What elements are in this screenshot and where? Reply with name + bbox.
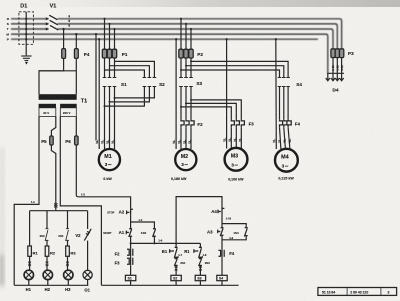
node dots on distribution rail	[130, 242, 178, 244]
pushbutton A2 (STOP, NC)	[127, 208, 133, 215]
wire A3 to F4	[221, 235, 223, 250]
bus L4 (N)	[11, 34, 328, 73]
contactor S1 contact ticks	[103, 78, 117, 87]
motor M2	[175, 149, 196, 170]
wire+terminal marks above lamp H1	[29, 256, 31, 270]
ground	[21, 56, 31, 61]
wire: L4 tap down to fuse P4b	[75, 34, 77, 49]
bus terminal labels at left edge	[6, 17, 9, 41]
wire 2S2 to coil S3	[199, 265, 201, 275]
taps on buses for P1	[103, 18, 115, 30]
overload F3 (3 poles)	[231, 119, 244, 127]
wire: 1S4 bottom back to A3 branch, net 1-9	[222, 236, 246, 240]
pin labels under P3 (rotated)	[331, 65, 344, 71]
terminal x-marks on P5 wire	[54, 203, 57, 207]
wire+terminal marks above lamp H3	[67, 256, 69, 270]
resistor R1	[28, 246, 32, 256]
wire: feed riser to A4 circuit	[176, 197, 222, 244]
wires P3 outputs to terminal strip	[333, 58, 342, 74]
fuse P3a	[331, 49, 335, 58]
lamp circuit top rail	[30, 210, 88, 212]
overload F2 (3 poles)	[181, 119, 194, 127]
wire: 220V right into fuse P6	[75, 117, 77, 137]
holding contact 1S5	[153, 229, 156, 237]
M2 terminal marks	[173, 140, 191, 144]
resistor R2	[45, 246, 49, 256]
wires P2 outputs through S3 to F2 overload	[181, 58, 191, 119]
wire: A1 bottom through merge to F2 contact	[130, 236, 132, 248]
wire 2S1 to coil S2	[175, 265, 177, 275]
connector D1 dashed box	[19, 12, 34, 45]
lamp branch H3 wire	[67, 211, 69, 246]
holding contact 1S4	[244, 228, 247, 237]
fuse P1a	[102, 49, 106, 58]
contact 2S4	[66, 229, 69, 241]
auxiliary contact R1	[194, 243, 202, 258]
M1 terminal marks	[96, 140, 114, 144]
wire: control distribution rail y243.4	[131, 242, 201, 244]
wire: M1 PE drop	[98, 39, 100, 149]
fuse P3b	[335, 49, 339, 58]
lamp circuit bottom rail	[14, 284, 88, 286]
motor M1	[99, 149, 120, 170]
switch V1 blades	[49, 15, 58, 30]
wire: M4 PE drop	[275, 39, 278, 149]
wire: 24V hot into fuse P5	[51, 117, 55, 137]
wire: M2 PE drop	[175, 39, 177, 149]
contactor coil S3	[195, 275, 205, 280]
pushbutton A1 (START, NO)	[126, 229, 132, 237]
taps on buses for P2	[180, 18, 192, 30]
limit contact 2S2	[199, 256, 203, 266]
D4 outgoing arrows	[326, 73, 344, 81]
title block	[318, 288, 397, 296]
M4 terminal marks	[273, 139, 291, 143]
wires buses to fuses P2	[181, 19, 191, 49]
wire: M3 PE drop	[226, 39, 228, 148]
contactor S3 contact ticks	[179, 78, 193, 87]
overload contact F4	[218, 250, 224, 257]
bus L5 (PE)	[11, 38, 318, 40]
wire: A3 parallel branch top, net 1-10	[222, 224, 246, 228]
M3 terminal marks	[223, 138, 241, 142]
fuse P1c	[112, 49, 116, 58]
wire coil S1 to bottom rail	[130, 281, 132, 286]
wire A2 to A1	[130, 215, 132, 228]
auxiliary contact B1	[170, 243, 178, 258]
switch V1 linkage (dashed)	[68, 15, 70, 29]
resistor R3	[66, 246, 70, 256]
fuse P2c	[189, 49, 193, 58]
lamp H1	[24, 270, 33, 279]
overload contact F3	[127, 256, 133, 265]
bus L3 (T phase)	[11, 29, 333, 49]
node dots on D1 vertical	[25, 18, 27, 41]
bus L1 (R phase)	[11, 19, 342, 49]
wire: 24V return (x39 down, left, down to lamp bottom rail)	[14, 117, 39, 286]
fuse P5	[50, 136, 54, 145]
wires P1 outputs to contactor S1 and cross links to S2	[105, 58, 155, 149]
node: T1 primary tap on L4	[75, 33, 77, 35]
switch V1 pole contacts (arrow tips)	[46, 17, 49, 30]
lamp branch H2 wire	[46, 211, 48, 246]
transformer T1 secondary 24V winding bar	[39, 104, 56, 108]
contact 2S3	[45, 229, 48, 241]
transformer T1 primary feed wires	[39, 58, 76, 94]
fuse P4b	[74, 49, 78, 59]
motor M3	[225, 148, 248, 171]
fuse P2a	[179, 49, 183, 58]
overload contact F2	[127, 248, 133, 256]
pushbutton A4 (NC)	[218, 208, 224, 215]
lamp branch O1 wire	[87, 211, 89, 271]
contactor coil S2	[171, 275, 181, 280]
contactor coil S1	[125, 275, 135, 280]
fuse P6	[75, 136, 79, 145]
cross links P2 to contactor S4	[181, 61, 288, 77]
bus L2 (S phase)	[11, 24, 337, 49]
wire: D1 common vertical	[25, 12, 27, 56]
wire: L3 tap down to fuse P4a	[63, 29, 65, 49]
transformer T1 secondary 24V frame	[39, 108, 56, 117]
control bottom rail	[101, 284, 238, 286]
links S3 outputs to M3 column	[181, 100, 241, 119]
wire: P6 output, net 1-3, feed of control circuit	[76, 145, 130, 208]
wire lamp H1 to bottom rail	[28, 280, 30, 286]
lamp H2	[43, 270, 52, 279]
lamp H3	[64, 270, 73, 279]
node dots S2 to S1 merge	[104, 97, 116, 107]
wire A4 to A3	[221, 214, 223, 227]
transformer T1 secondary 220V frame	[60, 108, 76, 117]
pushbutton A3 (NO)	[218, 228, 224, 236]
wire: A1 parallel branch top, net 1-4	[131, 222, 155, 229]
fuse P3c	[340, 49, 344, 58]
wire: 220V left output to control return rail	[60, 117, 101, 286]
contactor S4 contact ticks	[278, 78, 290, 87]
wire F4 to coil S4	[221, 257, 223, 276]
wires F2 to motor M2	[181, 127, 191, 149]
wires F4 to motor M4	[280, 127, 290, 149]
transformer T1 secondary 220V winding bar	[60, 104, 77, 108]
transformer T1 primary winding bar	[39, 94, 77, 100]
node: T1 primary tap on L3	[62, 28, 64, 30]
D4 terminal strip line	[327, 72, 344, 74]
overload F4 (3 poles)	[280, 119, 292, 127]
wires F3 to motor M3	[231, 127, 241, 148]
terminal x-marks above coils S2/S3	[175, 266, 202, 270]
motor M4	[275, 149, 298, 172]
wires buses to fuses P1	[105, 19, 115, 49]
contactor coil S4	[217, 275, 227, 280]
fuse P4a	[62, 49, 66, 59]
lamp branch H1 wire	[29, 211, 31, 246]
diode V2	[84, 229, 91, 241]
wire: P5 output down to lamp top rail	[51, 145, 55, 211]
contactor S2 contact ticks	[143, 78, 157, 87]
fuse P1b	[107, 49, 111, 58]
wire: 1S5 bottom to merge node	[153, 236, 155, 243]
lamp O1	[83, 270, 92, 279]
fuse P2b	[184, 49, 188, 58]
limit contact 2S1	[174, 256, 178, 266]
wires S4 to F4	[280, 87, 289, 120]
wire F3 to coil S1	[130, 265, 132, 275]
wire: M1 N drop	[95, 34, 97, 140]
wire+terminal marks above lamp H2	[46, 256, 48, 270]
